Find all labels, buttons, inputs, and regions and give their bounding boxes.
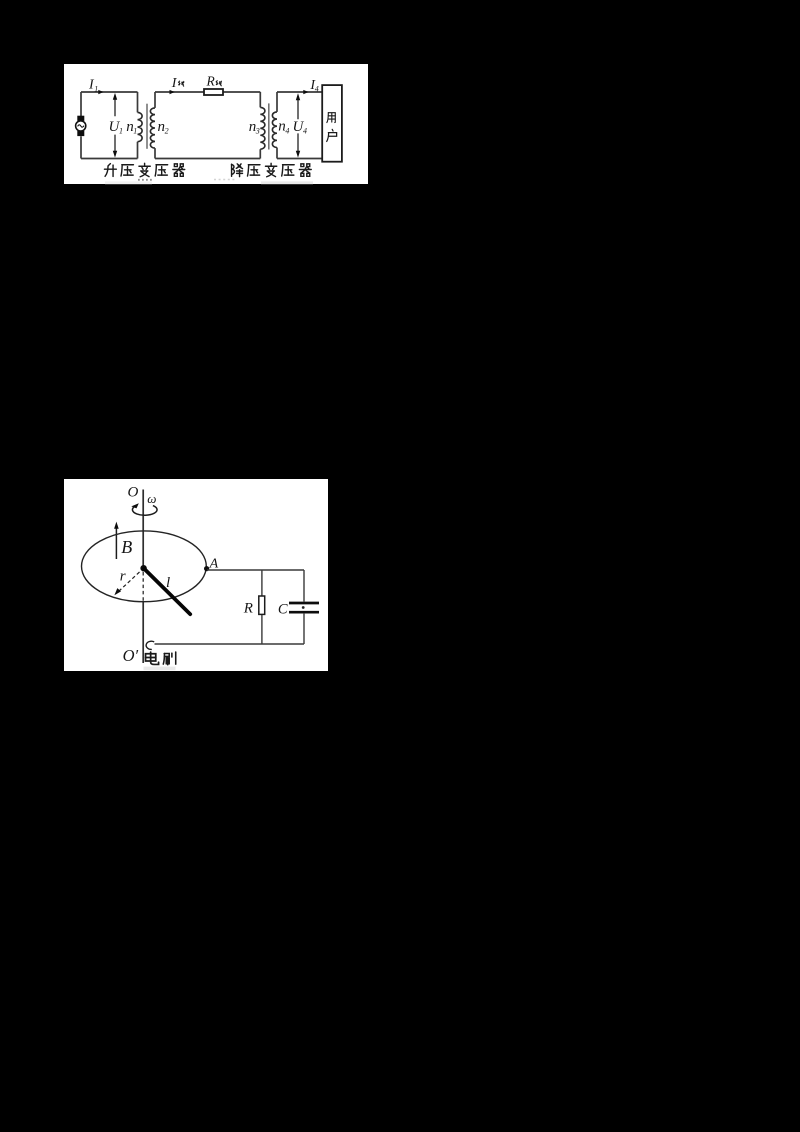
svg-text:1: 1 xyxy=(119,127,123,136)
svg-text:R: R xyxy=(206,73,216,88)
svg-text:2: 2 xyxy=(165,127,169,136)
radius r dashed arrow xyxy=(114,572,139,595)
capacitor C xyxy=(289,603,319,612)
resistor R_line xyxy=(204,89,223,95)
label 电刷 xyxy=(144,667,176,671)
svg-text:l: l xyxy=(166,575,170,591)
center hub dot xyxy=(140,565,146,571)
wire top (A to right) xyxy=(207,570,304,602)
rotation axis OO' xyxy=(142,490,144,572)
coil n2 xyxy=(150,108,155,148)
svg-text:ω: ω xyxy=(147,491,156,506)
panel 2 white background xyxy=(64,479,328,671)
user load box xyxy=(322,85,342,162)
caption 降压变压器 xyxy=(232,163,312,176)
resistor branch wire xyxy=(261,570,263,644)
axis dashed segment xyxy=(142,572,144,602)
svg-text:1: 1 xyxy=(133,127,137,136)
wire middle loop xyxy=(155,92,260,159)
svg-text:O′: O′ xyxy=(123,646,139,665)
current arrow I4 xyxy=(303,90,308,94)
transformer core 1 xyxy=(146,104,148,149)
svg-text:A: A xyxy=(209,556,219,571)
voltage arrow U4 xyxy=(296,93,300,157)
coil n1 xyxy=(138,112,143,141)
svg-text:3: 3 xyxy=(255,127,260,136)
rotation arrow arc xyxy=(131,503,157,515)
svg-text:4: 4 xyxy=(303,127,307,136)
axis lower segment xyxy=(142,602,144,663)
coil n3 xyxy=(260,107,265,149)
contact dot A xyxy=(204,566,209,571)
rod l xyxy=(144,569,190,614)
current arrow I1 xyxy=(98,90,103,94)
wire right loop xyxy=(277,92,322,159)
svg-text:1: 1 xyxy=(94,85,98,94)
faint underline dots xyxy=(138,179,153,181)
svg-text:4: 4 xyxy=(315,85,319,94)
current arrow I_line xyxy=(170,90,175,94)
svg-text:4: 4 xyxy=(285,127,289,136)
caption 升压变压器 xyxy=(104,163,184,176)
svg-text:O: O xyxy=(128,485,139,501)
resistor R xyxy=(259,596,265,614)
voltage arrow U1 xyxy=(113,93,117,158)
wire left loop xyxy=(81,92,138,159)
svg-text:r: r xyxy=(120,568,126,584)
panel 1 white background xyxy=(64,64,368,184)
svg-text:B: B xyxy=(121,537,132,557)
transformer core 2 xyxy=(268,103,270,149)
wire bottom xyxy=(155,614,305,644)
disk ellipse xyxy=(81,531,206,602)
svg-text:R: R xyxy=(243,601,253,617)
AC source G xyxy=(76,116,86,136)
coil n4 xyxy=(272,112,277,148)
label 用户 xyxy=(327,113,337,142)
svg-text:C: C xyxy=(278,601,288,617)
B field arrow xyxy=(114,522,119,559)
brush hook xyxy=(146,641,154,649)
